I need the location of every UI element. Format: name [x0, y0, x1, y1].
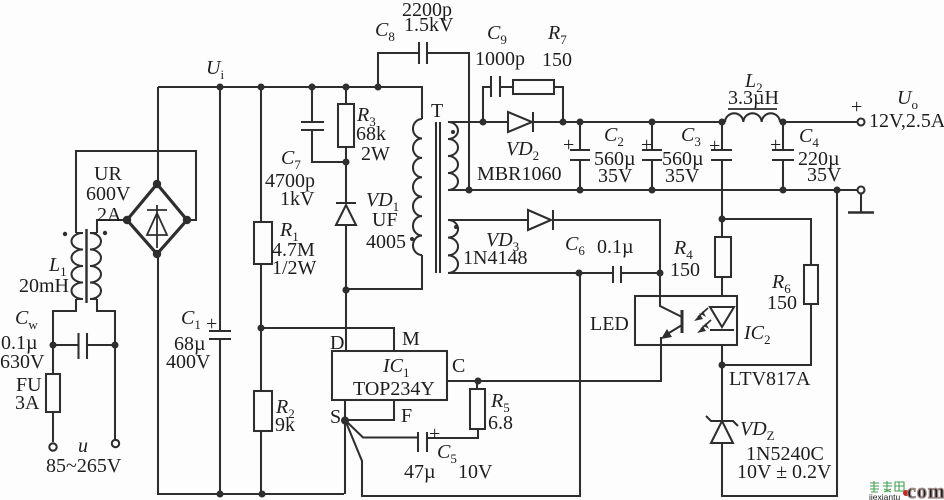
wire LED cathode node down to VDz [721, 345, 723, 420]
terminal input right [112, 440, 119, 447]
svg-text:47µ: 47µ [404, 461, 436, 483]
bridge rectifier UR [127, 184, 187, 254]
wire VDz anode to bottom return to 0V rail [722, 190, 837, 496]
diode VD1 [336, 202, 356, 204]
wire primary bottom lead [346, 255, 422, 289]
optocoupler phototransistor [681, 310, 684, 333]
svg-text:35V: 35V [807, 164, 842, 186]
wire R1 R2 chain [260, 87, 262, 494]
svg-text:10V ± 0.2V: 10V ± 0.2V [737, 461, 832, 483]
capacitor C5 [418, 432, 427, 452]
wire opto LED leads [721, 296, 723, 345]
svg-text:12V,2.5A: 12V,2.5A [869, 110, 944, 132]
svg-text:jiexiantu: jiexiantu [868, 492, 900, 500]
svg-text:+: + [851, 96, 862, 118]
svg-text:0.1µ: 0.1µ [597, 236, 634, 258]
svg-text:35V: 35V [665, 165, 700, 187]
wire node C : control pin line to optocoupler emitter [448, 345, 661, 381]
junction dots +12V rail [480, 119, 487, 126]
svg-text:T: T [431, 100, 443, 122]
svg-text:+: + [429, 423, 440, 445]
wire S node diagonal to bias return rail [346, 273, 581, 496]
svg-text:UR: UR [94, 163, 122, 185]
svg-text:LED: LED [590, 313, 629, 335]
wire X-capacitor row [53, 344, 115, 346]
svg-text:9k: 9k [275, 414, 295, 436]
wire filter cap leads [721, 122, 723, 190]
svg-text:150: 150 [542, 49, 572, 71]
svg-text:4005: 4005 [366, 231, 406, 253]
capacitor Cx X-cap [79, 333, 88, 359]
capacitor C2 [570, 150, 590, 160]
wire S pin and F pin to S node [345, 400, 394, 420]
polarity dot L1 left [63, 232, 67, 236]
fuse FU [46, 374, 60, 412]
capacitor C8 [419, 42, 427, 64]
transformer T secondary winding 1 [448, 122, 458, 190]
wire L1 right winding top to bridge left corner [97, 220, 127, 233]
wire node D : drain node down to D pin [345, 290, 347, 351]
terminal output plus [858, 119, 865, 126]
wire S node down to primary ground rail [344, 420, 346, 494]
inductor L2 [725, 113, 780, 122]
capacitor pi-filter [711, 150, 732, 160]
junction dots 0V rail [466, 187, 473, 194]
IC1 TOP234Y box [332, 351, 447, 400]
svg-text:+: + [641, 134, 652, 156]
wire bridge+ to Ui rail [157, 87, 159, 184]
wire S node diagonal to C5 [346, 421, 417, 438]
wire C8 from Ui rail across to secondary return [378, 53, 469, 190]
resistor R1 [254, 222, 272, 264]
wire secondary 1 top to VD2 anode [448, 121, 508, 123]
wire R3/C7 junction to VD1 cathode [345, 147, 347, 203]
svg-text:3.3µH: 3.3µH [728, 87, 779, 109]
junction R4/R6 top node [719, 216, 726, 223]
wire C4 leads [782, 122, 784, 190]
wire L1 left winding top loop over to bridge right corner [76, 151, 196, 233]
svg-text:TOP234Y: TOP234Y [353, 378, 435, 400]
diode VD2 [508, 112, 532, 132]
wire C1 branch [219, 87, 221, 494]
capacitor C4 [772, 150, 794, 160]
wire VD2 cathode along +12V rail to L2 [533, 121, 725, 123]
wire 0V rail to R4 [721, 190, 723, 296]
svg-text:150: 150 [670, 259, 700, 281]
junction node C / R5 [475, 378, 482, 385]
terminal output minus [858, 187, 865, 194]
optocoupler LED [710, 307, 734, 327]
svg-text:F: F [401, 405, 412, 427]
zener diode VDz [706, 416, 738, 426]
svg-text:2W: 2W [361, 143, 390, 165]
polarity dot bias winding [454, 225, 458, 229]
resistor R5 [470, 389, 485, 429]
svg-text:630V: 630V [0, 351, 45, 373]
wire L1 right winding bottom to input terminal [97, 299, 115, 439]
svg-text:150: 150 [767, 292, 797, 314]
junction dots on Ui rail [217, 84, 224, 91]
svg-text:+: + [709, 135, 720, 157]
wire C7 branch [312, 87, 345, 162]
svg-text:600V: 600V [86, 183, 131, 205]
optocoupler IC2 box [635, 296, 737, 345]
wire secondary 2 top to VD3, VD3 cathode to bias node [448, 220, 660, 273]
polarity dot primary [410, 237, 414, 241]
polarity dot secondary 1 [451, 130, 455, 134]
wire R3 top lead [345, 87, 347, 104]
wire secondary return 0V rail [448, 189, 857, 191]
junction dots primary ground rail [217, 491, 224, 498]
svg-text:68k: 68k [356, 123, 386, 145]
transformer T core [436, 122, 440, 273]
diode VD3 [528, 210, 551, 230]
junction R3/C7/VD1 [343, 159, 350, 166]
wire L2 to + output terminal [780, 121, 857, 123]
svg-text:35V: 35V [598, 165, 633, 187]
svg-text:+: + [770, 134, 781, 156]
svg-text:1kV: 1kV [280, 188, 315, 210]
svg-text:+: + [206, 313, 217, 335]
svg-text:400V: 400V [166, 351, 211, 373]
resistor R7 [513, 80, 554, 94]
svg-text:1N4148: 1N4148 [463, 247, 527, 269]
resistor R4 [715, 237, 731, 277]
wire VD1 anode to primary-bottom node [345, 225, 347, 290]
capacitor C9 [491, 76, 500, 97]
svg-text:1/2W: 1/2W [272, 257, 317, 279]
svg-text:85~265V: 85~265V [46, 455, 122, 477]
svg-text:1000p: 1000p [475, 48, 525, 70]
wire C9 R7 snubber loop [483, 87, 563, 122]
inductor L1 common mode choke [72, 233, 84, 299]
svg-text:C: C [452, 355, 465, 377]
svg-text:10V: 10V [458, 461, 493, 483]
junction node M [258, 325, 265, 332]
wire R6 branch [722, 219, 811, 365]
svg-text:LTV817A: LTV817A [729, 368, 811, 390]
svg-text:20mH: 20mH [19, 275, 69, 297]
svg-text:M: M [402, 328, 420, 350]
wire C5 to R5 bottom [428, 381, 478, 438]
svg-text:D: D [330, 332, 344, 354]
wire node M : R1/R2 junction to M pin [261, 328, 394, 351]
svg-text:+: + [563, 134, 574, 156]
junction drain node [342, 286, 349, 293]
wire ground stem [860, 194, 862, 212]
ground [848, 211, 874, 214]
polarity dot L1 right [103, 231, 107, 235]
capacitor C1 [209, 331, 231, 339]
optocoupler light arrows [694, 308, 711, 333]
junction dots X-cap [50, 342, 57, 349]
wire bridge- down left side and primary ground rail to S [158, 254, 344, 494]
capacitor C3 [642, 150, 662, 160]
wire bias winding bottom to C6 [448, 272, 660, 274]
transformer T bias winding [448, 220, 458, 273]
capacitor C7 [301, 122, 324, 130]
svg-text:1.5kV: 1.5kV [404, 14, 454, 36]
svg-text:S: S [330, 406, 341, 428]
junction dots bias winding [576, 270, 583, 277]
svg-text:MBR1060: MBR1060 [477, 163, 561, 185]
resistor R3 [338, 104, 354, 147]
terminal input left [49, 443, 56, 450]
svg-text:3A: 3A [15, 392, 40, 414]
wire C3 leads [651, 122, 653, 190]
svg-text:UF: UF [372, 209, 398, 231]
capacitor C6 [613, 266, 621, 283]
junction dots bridge corners [153, 180, 161, 188]
watermark jiexiantu [870, 481, 904, 492]
resistor R6 [804, 265, 818, 304]
wire bias node to opto collector [659, 273, 661, 296]
svg-text:com: com [907, 481, 944, 500]
svg-text:2A: 2A [97, 204, 122, 226]
transformer T primary winding [413, 119, 422, 255]
svg-text:u: u [78, 435, 88, 457]
svg-text:6.8: 6.8 [488, 412, 513, 434]
junction LED cathode / R6 / VDz [719, 362, 726, 369]
wire C2 leads [579, 122, 581, 190]
resistor R2 [254, 391, 272, 431]
wire L1 left winding bottom to fuse [53, 299, 76, 442]
node Ui : top DC bus rail and primary top lead [158, 87, 422, 119]
junction node S [341, 417, 349, 425]
